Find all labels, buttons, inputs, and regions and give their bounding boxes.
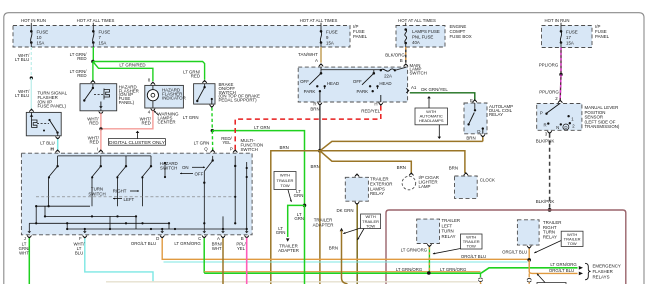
- splice node on WHT/LT BLU: [30, 76, 33, 79]
- main lamp switch: [319, 65, 323, 67]
- svg-text:RED: RED: [90, 140, 99, 145]
- svg-text:SWITCH: SWITCH: [88, 191, 105, 196]
- svg-text:WHT: WHT: [19, 251, 29, 256]
- svg-text:BLK/PNK: BLK/PNK: [536, 138, 555, 143]
- svg-text:LEFT: LEFT: [442, 223, 453, 228]
- svg-text:A: A: [217, 236, 220, 241]
- pin A multifunction switch: [221, 235, 225, 237]
- svg-text:PANEL: PANEL: [595, 34, 610, 39]
- node LT GRN trailer tow splice: [303, 204, 307, 208]
- svg-text:TOW: TOW: [467, 244, 476, 249]
- svg-text:DK GRN: DK GRN: [336, 208, 353, 213]
- svg-text:LT GRN/ORG: LT GRN/ORG: [174, 241, 201, 246]
- wire WHT/LT BLU from fuse 10: [30, 47, 32, 78]
- svg-text:PPL/ORG: PPL/ORG: [539, 63, 559, 68]
- svg-text:SWITCH: SWITCH: [410, 71, 427, 76]
- svg-text:A1: A1: [411, 85, 417, 90]
- trailer exterior lamps relay: [355, 175, 359, 177]
- inline connector on LT GRN/ORG drop: [480, 273, 482, 277]
- svg-text:SWITCH: SWITCH: [241, 147, 258, 152]
- svg-text:D: D: [564, 125, 567, 130]
- svg-text:BRN: BRN: [397, 165, 406, 170]
- pin H: [379, 103, 383, 105]
- fuse 10 15A: [30, 26, 32, 32]
- wire LT GRN/RED from fuse 7: [92, 47, 94, 62]
- svg-text:EMERGENCY: EMERGENCY: [593, 264, 621, 269]
- brace emergency flasher relays: [585, 263, 591, 280]
- pin B multifunction switch: [245, 235, 249, 237]
- svg-text:RED: RED: [191, 74, 200, 79]
- brake on/off switch: [202, 81, 206, 83]
- svg-text:RED: RED: [77, 73, 86, 78]
- svg-text:TRAILER: TRAILER: [442, 218, 461, 223]
- hazard flasher: [91, 81, 95, 83]
- wire LT GRN/RED to brake switch: [93, 62, 205, 80]
- multifunction switch linkage (dashed): [36, 196, 236, 198]
- svg-text:PANEL): PANEL): [119, 100, 135, 105]
- svg-text:RELAY: RELAY: [543, 235, 557, 240]
- wire LT GRN continues down: [304, 205, 306, 284]
- svg-text:HEADLAMPS: HEADLAMPS: [419, 118, 444, 123]
- node WHT/RED splice: [99, 127, 102, 130]
- svg-text:RELAY: RELAY: [370, 191, 384, 196]
- svg-text:BLK/ORG: BLK/ORG: [385, 52, 405, 57]
- svg-text:ORG/LT BLU: ORG/LT BLU: [461, 254, 486, 259]
- svg-text:D: D: [477, 129, 480, 134]
- svg-text:H: H: [50, 147, 53, 152]
- svg-text:ORG/LT BLU: ORG/LT BLU: [549, 268, 574, 273]
- svg-text:LAMP: LAMP: [419, 184, 431, 189]
- wire BRN main lamp switch pin R: [319, 106, 321, 151]
- svg-text:BRN: BRN: [329, 246, 338, 251]
- svg-text:DIGITAL CLUSTER ONLY: DIGITAL CLUSTER ONLY: [109, 140, 166, 146]
- wire BRN bus lower to cigar lamp: [320, 151, 411, 174]
- svg-text:15A: 15A: [566, 40, 574, 45]
- wire WHT/LT BLU pin F: [85, 238, 153, 281]
- svg-text:R: R: [543, 123, 546, 128]
- wire WHT faint bottom run: [106, 281, 478, 283]
- svg-text:ON: ON: [182, 165, 189, 170]
- svg-text:TOW: TOW: [567, 241, 576, 246]
- svg-text:FUSE BOX: FUSE BOX: [450, 34, 472, 39]
- turn signal flasher: [29, 110, 33, 112]
- svg-text:B: B: [400, 58, 403, 63]
- svg-text:P: P: [230, 147, 233, 152]
- multifunction switch turn wafer contacts: [58, 155, 151, 157]
- svg-text:LAMPS FUSE: LAMPS FUSE: [412, 29, 440, 34]
- main lamp switch internal tie and 22A breaker: [320, 67, 322, 73]
- svg-text:B: B: [241, 236, 244, 241]
- svg-text:ADAPTER: ADAPTER: [313, 222, 334, 227]
- wire LT GRN from brake switch: [211, 108, 213, 131]
- wire dark red bus loop: [386, 210, 626, 284]
- svg-text:RELAY: RELAY: [489, 112, 503, 117]
- fuse 17 15A: [560, 26, 562, 32]
- svg-text:RED: RED: [77, 56, 86, 61]
- svg-text:LT GRN/RED: LT GRN/RED: [119, 63, 145, 68]
- svg-text:ADAPTER: ADAPTER: [278, 248, 299, 253]
- wire ORG/LT BLU to emergency flasher relays: [529, 260, 577, 274]
- svg-text:RELAY: RELAY: [442, 234, 456, 239]
- svg-text:HEAD: HEAD: [379, 81, 391, 86]
- svg-text:LT GRN/ORG: LT GRN/ORG: [401, 248, 428, 253]
- svg-text:HEAD: HEAD: [327, 81, 339, 86]
- svg-text:PARK: PARK: [304, 89, 316, 94]
- wire LT GRN to multifunction switch pin Q: [211, 131, 213, 151]
- svg-text:WHT: WHT: [212, 246, 222, 251]
- wire BLK/ORG lamps fuse to main lamp switch: [405, 47, 407, 63]
- svg-text:RED/YEL: RED/YEL: [361, 109, 380, 114]
- svg-text:15A: 15A: [99, 40, 107, 45]
- svg-text:OFF: OFF: [353, 79, 362, 84]
- svg-text:J: J: [24, 236, 26, 241]
- svg-text:BLU: BLU: [75, 251, 83, 256]
- node LT GRN/ORG splice: [427, 271, 431, 275]
- svg-text:LT GRN/ORG: LT GRN/ORG: [440, 267, 467, 272]
- svg-text:ORG/LT BLU: ORG/LT BLU: [502, 249, 527, 254]
- svg-text:FLASHER: FLASHER: [593, 269, 613, 274]
- svg-text:OFF: OFF: [300, 79, 309, 84]
- svg-text:BRN: BRN: [280, 145, 289, 150]
- svg-text:HOT AT ALL TIMES: HOT AT ALL TIMES: [300, 18, 338, 23]
- svg-text:FUSE: FUSE: [566, 30, 578, 35]
- callout WITH AUTOMATIC HEADLAMPS: [415, 108, 448, 125]
- wire BRN/WHT pin A: [222, 238, 224, 284]
- callout DIGITAL CLUSTER ONLY: [108, 139, 165, 146]
- fuse panel (I/P fuse panel): [13, 26, 350, 48]
- svg-text:PARK: PARK: [356, 89, 368, 94]
- fuse 9 15A: [320, 26, 322, 32]
- svg-text:DK GRN/YEL: DK GRN/YEL: [421, 87, 448, 92]
- callout WITH TRAILER TOW (left relay): [461, 234, 483, 249]
- wire TAN/WHT fuse 9 to main lamp switch: [320, 47, 322, 63]
- svg-text:TURN: TURN: [442, 229, 454, 234]
- svg-text:10: 10: [37, 35, 42, 40]
- svg-text:N: N: [556, 125, 559, 130]
- svg-text:LT GRN: LT GRN: [254, 125, 270, 130]
- node ORG/LT BLU splice: [527, 258, 531, 262]
- svg-text:LT GRN/ORG: LT GRN/ORG: [550, 262, 577, 267]
- pin R: [318, 103, 322, 105]
- I/P fuse panel (fuse 17): [542, 26, 593, 48]
- svg-text:RIGHT: RIGHT: [113, 189, 127, 194]
- svg-text:FUSE: FUSE: [99, 30, 111, 35]
- wire BRN bus middle-right to clock: [320, 151, 465, 173]
- svg-text:D: D: [156, 236, 159, 241]
- wire LT GRN/ORG trailer left turn relay: [428, 247, 430, 273]
- svg-text:HOT IN RUN: HOT IN RUN: [545, 18, 570, 23]
- svg-text:H: H: [374, 101, 377, 106]
- svg-text:TAN/WHT: TAN/WHT: [298, 52, 318, 57]
- svg-text:YEL: YEL: [237, 246, 246, 251]
- wire LT GRN/RED to hazard indicator: [93, 62, 153, 82]
- svg-text:PEDAL SUPPORT): PEDAL SUPPORT): [219, 98, 258, 103]
- svg-text:GRN: GRN: [294, 193, 304, 198]
- wire ORG/LT BLU pin D: [162, 238, 529, 259]
- svg-text:CLOCK: CLOCK: [480, 177, 495, 182]
- svg-text:LT GRN: LT GRN: [194, 140, 210, 145]
- wire ORG/LT BLU trailer right turn relay: [528, 249, 530, 260]
- I/P cigar lighter lamp: [409, 174, 413, 176]
- LAMPS fuse 40A: [404, 28, 407, 31]
- trailer left turn relay: [417, 219, 440, 243]
- callout WITH TRAILER TOW (right relay): [561, 231, 583, 246]
- main lamp switch left wafer: [320, 72, 323, 75]
- svg-text:PPL/ORG: PPL/ORG: [539, 89, 559, 94]
- svg-text:BRN: BRN: [311, 164, 320, 169]
- wire BRN down from junction: [319, 151, 321, 284]
- svg-text:HOT AT ALL TIMES: HOT AT ALL TIMES: [398, 18, 436, 23]
- svg-text:22A: 22A: [384, 73, 392, 78]
- svg-text:A: A: [315, 58, 318, 63]
- node BLK/PNK on bus: [548, 208, 552, 212]
- svg-text:CENTER: CENTER: [158, 120, 176, 125]
- svg-text:FUSE PANEL): FUSE PANEL): [38, 104, 67, 109]
- svg-text:RELAYS: RELAYS: [593, 274, 610, 279]
- engine compartment fuse box (LAMPS fuse): [396, 26, 445, 48]
- svg-text:I: I: [97, 147, 98, 152]
- svg-text:PNL FUSE: PNL FUSE: [412, 34, 433, 39]
- wire WHT/RED from hazard flasher: [100, 113, 102, 129]
- svg-text:GRN: GRN: [294, 216, 304, 221]
- wire WHT/RED to multifunction switch pin I: [100, 129, 102, 150]
- callout WITH TRAILER TOW (lt grn splice): [274, 172, 296, 190]
- wire LT GRN/WHT pin J: [28, 238, 30, 284]
- svg-text:Q: Q: [204, 147, 208, 152]
- svg-text:HOT AT ALL TIMES: HOT AT ALL TIMES: [77, 18, 115, 23]
- pin J multifunction switch: [27, 235, 31, 237]
- svg-text:GRN: GRN: [276, 230, 286, 235]
- svg-text:SWITCH: SWITCH: [160, 165, 177, 170]
- wire RED/YEL main lamp switch to multifunction switch pin P: [235, 106, 381, 151]
- svg-text:OFF: OFF: [195, 172, 204, 177]
- pin F multifunction switch: [83, 235, 87, 237]
- wire WHT/RED from indicator pin 4: [101, 111, 153, 129]
- svg-text:BRN: BRN: [466, 136, 475, 141]
- pin C multifunction switch: [202, 235, 206, 237]
- wire LT GRN to trailer tow splice: [212, 131, 304, 206]
- wire BRN bus upper: [320, 141, 483, 150]
- svg-text:FUSE: FUSE: [326, 30, 338, 35]
- wire PPL/ORG from fuse 17: [560, 48, 562, 75]
- fuse 7 15A: [92, 26, 94, 32]
- node PPL/ORG splice: [559, 73, 562, 76]
- svg-text:LT BLU: LT BLU: [15, 57, 29, 62]
- svg-text:INDICATOR: INDICATOR: [162, 95, 186, 100]
- pin A1: [406, 88, 408, 92]
- svg-text:ORG/LT BLU: ORG/LT BLU: [131, 241, 156, 246]
- svg-text:15A: 15A: [326, 40, 334, 45]
- svg-text:HOT IN RUN: HOT IN RUN: [21, 18, 46, 23]
- svg-text:LT BLU: LT BLU: [40, 141, 54, 146]
- main lamp switch right wafer: [373, 70, 375, 74]
- svg-text:BRN: BRN: [310, 107, 319, 112]
- wire BRN from trailer adapter (arrow up): [340, 228, 344, 231]
- svg-text:RED: RED: [142, 121, 151, 126]
- svg-text:TOW: TOW: [366, 224, 375, 229]
- wire DK GRN from trailer exterior lamps relay: [356, 205, 358, 284]
- wire LT GRN/RED to hazard flasher: [92, 62, 94, 82]
- svg-text:PANEL: PANEL: [353, 34, 368, 39]
- multifunction switch hazard wafer: [212, 156, 214, 161]
- wire BRN bus middle-left: [271, 151, 320, 284]
- svg-text:LEFT: LEFT: [124, 197, 135, 202]
- wire LT GRN/ORG pin C: [203, 238, 205, 272]
- node LT GRN/RED splice: [91, 60, 94, 63]
- svg-text:BLK/PNK: BLK/PNK: [536, 199, 555, 204]
- wire DK GRN/YEL to autolamp relay: [410, 93, 475, 101]
- wire BRN autolamp relay to brown bus: [482, 137, 484, 141]
- svg-text:LT GRN/ORG: LT GRN/ORG: [396, 267, 423, 272]
- node LT GRN splice: [211, 129, 214, 132]
- svg-text:15A: 15A: [37, 40, 45, 45]
- svg-text:LT BLU: LT BLU: [15, 93, 29, 98]
- wire ORG/LT BLU down through connector: [528, 273, 530, 277]
- svg-text:BRN: BRN: [449, 166, 458, 171]
- svg-text:F: F: [79, 236, 82, 241]
- svg-text:TOW: TOW: [280, 183, 289, 188]
- wire BLK/PNK MLP sensor to splice: [549, 134, 551, 210]
- svg-text:RED: RED: [89, 121, 98, 126]
- wire PPL/YEL pin B: [246, 238, 248, 284]
- svg-text:YEL: YEL: [222, 140, 231, 145]
- trailer right turn relay: [517, 220, 539, 245]
- multifunction switch: [55, 151, 59, 153]
- node BRN junction: [318, 149, 322, 153]
- svg-text:FUSE: FUSE: [37, 30, 49, 35]
- svg-text:40A: 40A: [412, 40, 420, 45]
- clock: [464, 174, 468, 176]
- svg-text:TRANSMISSION): TRANSMISSION): [585, 124, 620, 129]
- wire LT GRN to trailer adapter: [288, 205, 305, 237]
- callout WITH TRAILER TOW (bottom, clipped): [537, 283, 566, 284]
- pin D autolamp relay: [481, 134, 485, 136]
- wire LT GRN/ORG to emergency flasher relays: [481, 268, 578, 273]
- svg-text:P: P: [540, 111, 543, 116]
- svg-text:17: 17: [566, 35, 571, 40]
- svg-text:LT GRN: LT GRN: [183, 115, 199, 120]
- multifunction switch lower mesh: [36, 205, 90, 207]
- callout WITH TRAILER TOW (brn adapters): [361, 214, 381, 229]
- pin 3 MLP sensor: [547, 131, 551, 133]
- pin D multifunction switch: [160, 235, 164, 237]
